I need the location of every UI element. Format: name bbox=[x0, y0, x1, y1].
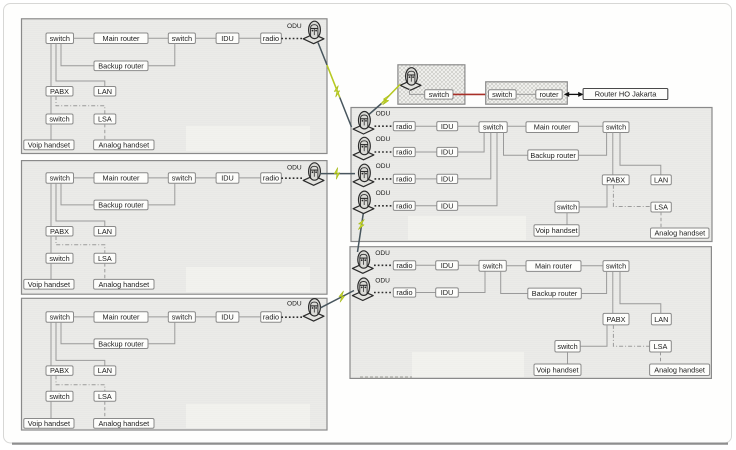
wire radio-IDU block4 row2 bbox=[415, 151, 437, 153]
svg-text:ODU: ODU bbox=[375, 277, 390, 284]
dashed LSA-AnalogHandset block4 bbox=[660, 212, 662, 228]
dash-dot PABX-LSA block1 bbox=[56, 96, 105, 114]
dashed LSA-AnalogHandset block5 bbox=[660, 352, 662, 364]
LSA block1 bbox=[94, 114, 116, 124]
wire switchL-PABX block5 bbox=[580, 325, 607, 346]
svg-text:switch: switch bbox=[49, 254, 69, 263]
IDU block4 row4 bbox=[437, 201, 458, 210]
dashed LSA-AnalogHandset block1 bbox=[104, 124, 106, 140]
IDU block5 row1 bbox=[436, 261, 459, 270]
dotted ODU-radio block5 row2 bbox=[374, 292, 393, 294]
radio block2 bbox=[261, 173, 282, 184]
svg-text:Backup router: Backup router bbox=[98, 61, 144, 70]
switch S3a bbox=[46, 312, 74, 323]
site block 5 (right-lower) bbox=[350, 247, 711, 379]
svg-text:LSA: LSA bbox=[654, 203, 668, 212]
erased area block1 bbox=[186, 126, 310, 151]
svg-text:IDU: IDU bbox=[441, 288, 454, 297]
dashed LSA-AnalogHandset block3 bbox=[104, 401, 106, 418]
svg-text:switch: switch bbox=[50, 313, 70, 322]
erased area block5 bbox=[412, 352, 524, 377]
switch block5 center bbox=[479, 260, 506, 271]
svg-text:IDU: IDU bbox=[441, 175, 454, 184]
svg-text:LAN: LAN bbox=[98, 87, 112, 96]
wire S3c-VoipHandset bbox=[50, 401, 52, 418]
wire BackupRouter-switchR block5 bbox=[581, 271, 606, 293]
switch HO-A bbox=[425, 90, 453, 99]
lightning bolt link4 bbox=[358, 219, 364, 230]
wire S2c-VoipHandset bbox=[50, 263, 52, 279]
wire MainRouter-S3b bbox=[148, 316, 168, 318]
wire IDU-radio block1 bbox=[239, 37, 261, 39]
svg-text:switch: switch bbox=[483, 123, 503, 132]
svg-text:Analog handset: Analog handset bbox=[654, 229, 705, 238]
svg-text:LAN: LAN bbox=[98, 227, 112, 236]
svg-text:ODU: ODU bbox=[376, 190, 391, 197]
Main router block3 bbox=[94, 312, 148, 323]
PABX block4 bbox=[602, 175, 629, 185]
ODU antenna block4 row3 bbox=[353, 164, 374, 187]
wire switchR-PABX block5 bbox=[612, 271, 614, 313]
wire IDU1-switch block4 bbox=[458, 125, 479, 127]
wire S3a-PABX bbox=[50, 322, 52, 366]
wire BackupRouter-switchR block4 bbox=[578, 133, 606, 156]
svg-text:switch: switch bbox=[50, 34, 70, 43]
Main router block1 bbox=[94, 33, 148, 44]
svg-text:switch: switch bbox=[50, 174, 70, 183]
svg-text:ODU: ODU bbox=[375, 250, 390, 257]
LAN block4 bbox=[651, 175, 671, 185]
Backup router block4 bbox=[528, 150, 579, 161]
IDU block4 row2 bbox=[437, 147, 458, 156]
wire switch-VoipHandset block4 bbox=[566, 213, 568, 225]
svg-text:Voip handset: Voip handset bbox=[536, 365, 578, 374]
switch S2a bbox=[46, 173, 74, 184]
switch block4 lower bbox=[555, 201, 579, 213]
svg-text:switch: switch bbox=[557, 342, 577, 351]
site block 2 (middle-left) bbox=[22, 161, 328, 295]
switch S2c bbox=[46, 253, 73, 263]
page bottom shadow bbox=[12, 443, 728, 445]
ODU antenna block1 bbox=[303, 21, 324, 44]
IDU block5 row2 bbox=[436, 288, 459, 297]
ODU antenna block4 row1 bbox=[353, 112, 374, 135]
wire BackupRouter-S2b bbox=[148, 183, 175, 205]
radio link block2-block4row3 bbox=[320, 173, 355, 175]
svg-text:Analog handset: Analog handset bbox=[98, 280, 149, 289]
ODU antenna block5 row2 bbox=[352, 278, 373, 301]
lightning bolt link1 bbox=[333, 86, 340, 97]
svg-text:switch: switch bbox=[49, 392, 69, 401]
wire S1b-IDU bbox=[195, 37, 216, 39]
router HO bbox=[536, 90, 562, 99]
Main router block4 bbox=[526, 122, 578, 133]
svg-text:Voip handset: Voip handset bbox=[28, 140, 70, 149]
radio link block4row1-HO lower bbox=[366, 104, 382, 118]
svg-text:PABX: PABX bbox=[607, 315, 626, 324]
svg-text:Backup router: Backup router bbox=[98, 201, 144, 210]
svg-text:LSA: LSA bbox=[98, 392, 112, 401]
wire S1a-BackupRouter bbox=[61, 44, 94, 66]
svg-text:radio: radio bbox=[396, 201, 412, 210]
wire IDU1-switch block5 bbox=[458, 264, 479, 266]
wire S2a-LAN bbox=[56, 183, 105, 226]
ODU antenna block4 row4 bbox=[353, 191, 374, 214]
Backup router block3 bbox=[94, 339, 148, 349]
radio block3 bbox=[261, 312, 282, 323]
PABX block5 bbox=[603, 313, 629, 325]
red uplink wire switchA-switchB bbox=[453, 93, 489, 95]
wire S1a-MainRouter bbox=[74, 37, 95, 39]
svg-text:radio: radio bbox=[396, 175, 412, 184]
double arrow router-RouterHOJakarta bbox=[564, 92, 584, 97]
svg-text:PABX: PABX bbox=[50, 87, 69, 96]
svg-text:PABX: PABX bbox=[50, 227, 69, 236]
Voip handset block3 bbox=[24, 419, 74, 429]
svg-text:IDU: IDU bbox=[441, 122, 454, 131]
dotted ODU-radio block4 row4 bbox=[375, 205, 394, 207]
wire S2b-IDU bbox=[195, 177, 216, 179]
switch HO-B bbox=[489, 90, 517, 99]
switch S1c bbox=[46, 114, 73, 124]
svg-text:ODU: ODU bbox=[287, 300, 302, 307]
svg-text:switch: switch bbox=[429, 90, 449, 99]
switch block5 right bbox=[603, 261, 629, 272]
lightning bolt link5 bbox=[338, 291, 345, 302]
IDU block4 row3 bbox=[437, 174, 458, 183]
switch S3c bbox=[46, 391, 73, 401]
erased area block4 bbox=[408, 216, 526, 240]
wire IDU2-switch block5 bbox=[458, 271, 485, 292]
switch block5 lower bbox=[555, 341, 580, 353]
svg-text:LSA: LSA bbox=[98, 254, 112, 263]
wire IDU-radio block2 bbox=[239, 177, 261, 179]
Analog handset block5 bbox=[650, 364, 710, 376]
wire S1c-VoipHandset bbox=[50, 124, 52, 140]
svg-text:Backup router: Backup router bbox=[532, 289, 578, 298]
wire switchR-PABX block4 bbox=[612, 133, 614, 175]
radio link block3-block5row2 bbox=[321, 291, 355, 308]
IDU block3 bbox=[216, 312, 239, 323]
svg-text:Voip handset: Voip handset bbox=[28, 280, 70, 289]
svg-text:switch: switch bbox=[606, 123, 626, 132]
radio block5 row1 bbox=[393, 261, 415, 270]
svg-text:Main router: Main router bbox=[103, 34, 140, 43]
wire radio-IDU block4 row1 bbox=[415, 125, 437, 127]
wire radio-IDU block5 row2 bbox=[416, 292, 436, 294]
wire S3a-BackupRouter bbox=[61, 322, 94, 344]
radio block4 row4 bbox=[393, 201, 415, 210]
lightning bolt link3 bbox=[333, 168, 341, 180]
svg-text:PABX: PABX bbox=[50, 366, 69, 375]
PABX block2 bbox=[46, 227, 73, 237]
svg-text:Voip handset: Voip handset bbox=[28, 419, 70, 428]
wire S3b-IDU bbox=[195, 316, 216, 318]
wire BackupRouter-S3b bbox=[148, 322, 175, 344]
svg-text:IDU: IDU bbox=[441, 201, 454, 210]
Voip handset block4 bbox=[534, 225, 579, 237]
wire S2a-BackupRouter bbox=[61, 183, 94, 205]
LSA block5 bbox=[650, 341, 672, 353]
svg-text:router: router bbox=[539, 90, 559, 99]
radio link block4row1-HO yellow upper bbox=[382, 85, 401, 104]
dotted ODU-radio block4 row2 bbox=[375, 151, 394, 153]
wire MainRouter-S2b bbox=[148, 177, 168, 179]
svg-text:LAN: LAN bbox=[654, 176, 668, 185]
svg-text:Voip handset: Voip handset bbox=[535, 226, 577, 235]
svg-text:Analog handset: Analog handset bbox=[98, 140, 149, 149]
svg-text:radio: radio bbox=[263, 34, 279, 43]
svg-text:ODU: ODU bbox=[287, 23, 302, 30]
PABX block1 bbox=[46, 87, 73, 97]
dotted ODU-radio block5 row1 bbox=[374, 264, 393, 266]
svg-text:radio: radio bbox=[396, 261, 412, 270]
svg-text:IDU: IDU bbox=[221, 34, 234, 43]
IDU block1 bbox=[216, 33, 239, 44]
dash-dot PABX-LSA block5 bbox=[613, 325, 649, 346]
lightning bolt link2 bbox=[382, 94, 389, 105]
erased area block3 bbox=[186, 404, 310, 428]
radio-ODU dotted link block2 bbox=[281, 177, 303, 179]
switch S3b bbox=[168, 312, 195, 323]
svg-text:PABX: PABX bbox=[606, 176, 625, 185]
PABX block3 bbox=[46, 366, 73, 376]
radio link block1-block4row1 upper bbox=[318, 43, 327, 66]
LAN block2 bbox=[94, 227, 116, 237]
site block 1 (top-left) bbox=[22, 19, 328, 154]
svg-text:Analog handset: Analog handset bbox=[98, 419, 149, 428]
radio link block1-block4row1 yellow mid bbox=[327, 65, 340, 98]
erased area block2 bbox=[186, 267, 310, 292]
LAN block1 bbox=[94, 87, 116, 97]
wire S2a-MainRouter bbox=[74, 177, 95, 179]
radio block4 row2 bbox=[393, 147, 415, 156]
Voip handset block2 bbox=[24, 279, 74, 289]
Voip handset block1 bbox=[24, 140, 74, 150]
wire switch-VoipHandset block5 bbox=[567, 352, 569, 364]
svg-text:IDU: IDU bbox=[441, 261, 454, 270]
dash-dot PABX-LSA block3 bbox=[56, 375, 105, 391]
wire switchL-PABX block4 bbox=[579, 185, 607, 207]
wire BackupRouter-S1b bbox=[148, 44, 175, 66]
svg-text:Main router: Main router bbox=[103, 313, 140, 322]
svg-text:IDU: IDU bbox=[221, 313, 234, 322]
wire S2a-PABX bbox=[50, 183, 52, 226]
svg-text:Analog handset: Analog handset bbox=[654, 365, 705, 374]
svg-text:Main router: Main router bbox=[534, 123, 571, 132]
wire radio-IDU block5 row1 bbox=[416, 264, 436, 266]
ODU antenna block4 row2 bbox=[353, 137, 374, 160]
svg-text:IDU: IDU bbox=[441, 148, 454, 157]
switch block4 right bbox=[603, 122, 629, 133]
faint erased caption block5 bbox=[360, 376, 412, 378]
dash-dot PABX-LSA block2 bbox=[56, 236, 105, 253]
radio block1 bbox=[261, 33, 282, 44]
wire switchB-router bbox=[516, 93, 536, 95]
dash-dot PABX-LSA block4 bbox=[613, 185, 651, 207]
site block 3 (bottom-left) bbox=[22, 298, 328, 430]
Main router block5 bbox=[526, 261, 581, 272]
IDU block2 bbox=[216, 173, 239, 184]
wire switchR-LAN block4 bbox=[620, 133, 661, 175]
dotted ODU-radio block4 row3 bbox=[375, 178, 394, 180]
svg-text:radio: radio bbox=[396, 288, 412, 297]
switch S1a bbox=[46, 33, 74, 44]
switch S2b bbox=[168, 173, 195, 184]
ODU antenna block2 bbox=[303, 163, 324, 186]
svg-text:radio: radio bbox=[263, 313, 279, 322]
LAN block5 bbox=[651, 313, 671, 325]
svg-text:radio: radio bbox=[396, 122, 412, 131]
wire switch-MainRouter block5 bbox=[506, 265, 526, 267]
Voip handset block5 bbox=[534, 364, 581, 376]
wire MainRouter-switchR block5 bbox=[581, 265, 603, 267]
switch block4 center bbox=[479, 122, 507, 133]
svg-text:Main router: Main router bbox=[535, 262, 572, 271]
svg-text:ODU: ODU bbox=[376, 110, 391, 117]
IDU block4 row1 bbox=[437, 122, 458, 131]
radio block5 row2 bbox=[393, 288, 415, 297]
svg-text:Backup router: Backup router bbox=[98, 339, 144, 348]
wire IDU3-switch block4 bbox=[458, 133, 491, 179]
wire switchR-LAN block5 bbox=[620, 271, 661, 313]
site block 4 (right-upper) bbox=[351, 108, 712, 242]
radio-ODU dotted link block3 bbox=[281, 316, 303, 318]
radio link block4row4-block5row1 bbox=[358, 212, 364, 252]
LAN block3 bbox=[94, 366, 116, 376]
radio-ODU dotted link block1 bbox=[281, 38, 303, 40]
wire PABX-S2c bbox=[50, 236, 52, 253]
wire IDU-radio block3 bbox=[239, 316, 261, 318]
Backup router block2 bbox=[94, 200, 148, 210]
wire HOantenna-switch bbox=[410, 89, 425, 95]
svg-text:Router HO Jakarta: Router HO Jakarta bbox=[595, 90, 658, 99]
svg-text:LAN: LAN bbox=[654, 315, 668, 324]
Backup router block1 bbox=[94, 61, 148, 71]
svg-text:switch: switch bbox=[492, 90, 512, 99]
ODU antenna block5 row1 bbox=[352, 251, 373, 274]
wire IDU4-switch block4 bbox=[458, 133, 497, 206]
wire radio-IDU block4 row4 bbox=[415, 205, 437, 207]
svg-text:Main router: Main router bbox=[103, 174, 140, 183]
hatched enclosure B (HO core) bbox=[486, 82, 568, 104]
wire S1a-LAN bbox=[56, 44, 105, 87]
wire switch-BackupRouter block4 bbox=[504, 133, 528, 156]
ODU antenna block3 bbox=[303, 299, 324, 322]
wire MainRouter-S1b bbox=[148, 37, 168, 39]
radio block4 row3 bbox=[393, 174, 415, 183]
dotted ODU-radio block4 row1 bbox=[375, 125, 394, 127]
svg-text:switch: switch bbox=[172, 34, 192, 43]
Analog handset block1 bbox=[94, 140, 154, 150]
svg-text:switch: switch bbox=[172, 313, 192, 322]
Router HO Jakarta bbox=[583, 89, 668, 100]
wire switch-BackupRouter block5 bbox=[501, 271, 528, 293]
svg-text:LSA: LSA bbox=[98, 115, 112, 124]
wire S1a-PABX bbox=[50, 44, 52, 87]
dashed LSA-AnalogHandset block2 bbox=[104, 263, 106, 279]
svg-text:IDU: IDU bbox=[221, 174, 234, 183]
Backup router block5 bbox=[528, 288, 582, 299]
Main router block2 bbox=[94, 173, 148, 184]
radio link block1-block4row1 lower bbox=[340, 98, 352, 128]
svg-text:radio: radio bbox=[396, 148, 412, 157]
wire S3a-MainRouter bbox=[74, 316, 95, 318]
Analog handset block2 bbox=[94, 279, 154, 289]
wire PABX-S3c bbox=[50, 375, 52, 391]
svg-text:switch: switch bbox=[482, 261, 502, 270]
svg-text:LAN: LAN bbox=[98, 366, 112, 375]
svg-text:ODU: ODU bbox=[376, 136, 391, 143]
wire radio-IDU block4 row3 bbox=[415, 178, 437, 180]
svg-text:ODU: ODU bbox=[287, 165, 302, 172]
svg-text:switch: switch bbox=[557, 203, 577, 212]
ODU antenna HO bbox=[400, 68, 421, 91]
Analog handset block3 bbox=[94, 419, 154, 429]
radio block4 row1 bbox=[393, 122, 415, 131]
wire S3a-LAN bbox=[56, 322, 105, 366]
wire MainRouter-switchR block4 bbox=[578, 125, 603, 127]
svg-text:radio: radio bbox=[263, 174, 279, 183]
wire switch-MainRouter block4 bbox=[507, 125, 526, 127]
svg-text:switch: switch bbox=[606, 262, 626, 271]
svg-text:switch: switch bbox=[172, 174, 192, 183]
svg-text:Backup router: Backup router bbox=[530, 151, 576, 160]
svg-text:switch: switch bbox=[49, 115, 69, 124]
switch S1b bbox=[168, 33, 195, 44]
hatched enclosure A (HO radio site) bbox=[398, 65, 465, 104]
LSA block4 bbox=[651, 202, 671, 212]
wire PABX-S1c bbox=[50, 96, 52, 114]
wire IDU2-switch block4 bbox=[458, 133, 484, 153]
svg-text:LSA: LSA bbox=[654, 342, 668, 351]
LSA block3 bbox=[94, 391, 116, 401]
LSA block2 bbox=[94, 253, 116, 263]
svg-text:ODU: ODU bbox=[376, 163, 391, 170]
Analog handset block4 bbox=[651, 228, 710, 238]
